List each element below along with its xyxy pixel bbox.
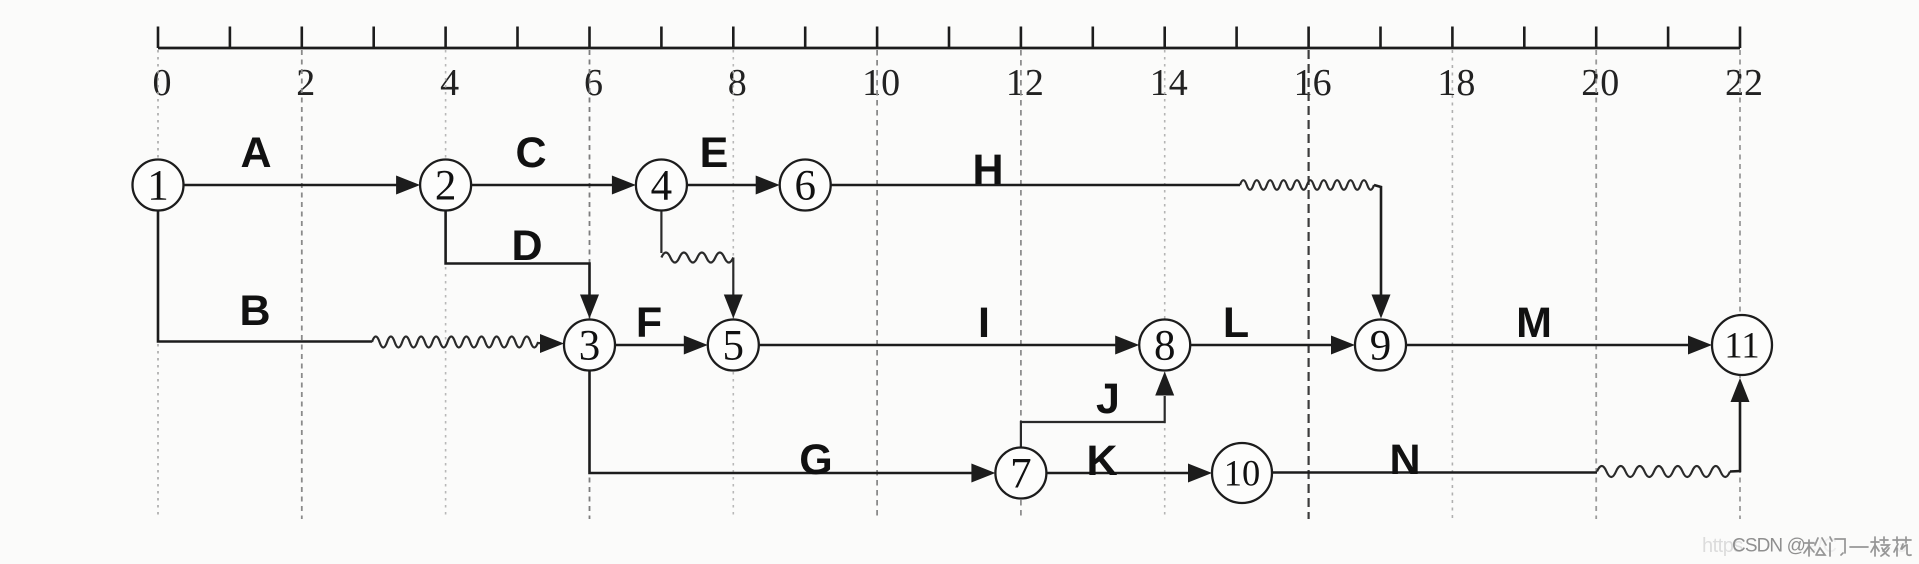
free-float connector (4-5) squiggle elbow (661, 210, 742, 319)
activity arrow N (10-11) with free-float squiggle and elbow (1272, 378, 1750, 477)
activity arrow K (7-10) (1046, 464, 1212, 483)
ruler timescale bar (158, 27, 1740, 49)
node 1 (event circle) (133, 160, 184, 211)
dashed gridline t=8 (732, 50, 734, 519)
svg-text:H: H (972, 146, 1003, 194)
svg-text:5: 5 (723, 323, 745, 370)
dashed gridline t=2 (301, 50, 303, 519)
ruler scale numbers 0-22 (153, 62, 1764, 104)
svg-text:A: A (240, 129, 271, 177)
svg-text:4: 4 (440, 62, 459, 104)
dashed gridline t=0 (157, 50, 159, 519)
dashed gridline t=16 (1307, 50, 1309, 519)
activity arrow A (1-2) (183, 176, 420, 195)
svg-text:8: 8 (1154, 323, 1176, 370)
svg-text:F: F (636, 299, 662, 347)
svg-text:4: 4 (651, 163, 673, 210)
svg-text:18: 18 (1437, 62, 1475, 104)
dashed gridline t=4 (445, 50, 447, 519)
node 6 (event circle) (780, 160, 831, 211)
svg-text:M: M (1516, 299, 1552, 347)
svg-text:K: K (1086, 437, 1117, 485)
svg-text:J: J (1096, 375, 1120, 423)
node 4 (event circle) (636, 160, 687, 211)
dashed gridline t=20 (1595, 50, 1597, 519)
svg-text:6: 6 (584, 62, 603, 104)
node 5 (event circle) (708, 320, 759, 371)
svg-text:22: 22 (1725, 62, 1763, 104)
activity arrow B (1-3) with free-float squiggle (158, 210, 564, 353)
svg-text:CSDN @: CSDN @ (1732, 536, 1805, 557)
node 7 (event circle) (995, 448, 1046, 499)
svg-text:1: 1 (147, 163, 169, 210)
node 10 (event circle) (1212, 443, 1272, 503)
activity arrow L (8-9) (1190, 336, 1355, 355)
dashed gridline t=6 (589, 50, 591, 519)
node 3 (event circle) (564, 320, 615, 371)
activity arrow I (5-8) (758, 336, 1139, 355)
svg-text:6: 6 (794, 163, 816, 210)
activity arrow H (6-9) with free-float squiggle and elbow (830, 180, 1390, 318)
activity arrow C (2-4) (471, 176, 636, 195)
svg-text:11: 11 (1724, 325, 1759, 366)
activity arrow F (3-5) (615, 336, 708, 355)
dashed gridline t=12 (1020, 50, 1022, 519)
node 11 (event circle) (1712, 315, 1772, 375)
svg-text:20: 20 (1581, 62, 1619, 104)
node 8 (event circle) (1139, 320, 1190, 371)
svg-text:B: B (239, 287, 270, 335)
dashed gridline t=22 (1739, 50, 1741, 519)
watermark chinese handle 松门一枝花 (1804, 538, 1826, 556)
svg-text:N: N (1389, 436, 1420, 484)
svg-text:7: 7 (1010, 451, 1032, 498)
activity arrow M (9-11) (1406, 336, 1713, 355)
svg-text:L: L (1223, 299, 1249, 347)
node 2 (event circle) (420, 160, 471, 211)
svg-text:C: C (515, 129, 546, 177)
svg-text:9: 9 (1370, 323, 1392, 370)
svg-text:10: 10 (1224, 453, 1261, 494)
svg-text:8: 8 (728, 62, 747, 104)
svg-text:12: 12 (1006, 62, 1044, 104)
activity arrow E (4-6) (686, 176, 779, 195)
svg-text:2: 2 (296, 62, 315, 104)
node 9 (event circle) (1355, 320, 1406, 371)
svg-text:10: 10 (862, 62, 900, 104)
dashed gridline t=18 (1451, 50, 1453, 519)
svg-text:E: E (700, 129, 729, 177)
svg-text:G: G (799, 436, 832, 484)
svg-text:3: 3 (579, 323, 601, 370)
svg-text:D: D (511, 222, 542, 270)
svg-text:0: 0 (153, 62, 172, 104)
activity arrow G (3-7) elbow (590, 370, 996, 483)
activity arrow J (7-8) elbow (1021, 372, 1174, 449)
svg-text:I: I (978, 299, 990, 347)
dashed gridline t=10 (876, 50, 878, 519)
activity arrow D (2-3) elbow (446, 210, 599, 319)
svg-text:16: 16 (1294, 62, 1332, 104)
svg-text:2: 2 (435, 163, 457, 210)
svg-text:14: 14 (1150, 62, 1188, 104)
dashed gridline t=14 (1164, 50, 1166, 519)
